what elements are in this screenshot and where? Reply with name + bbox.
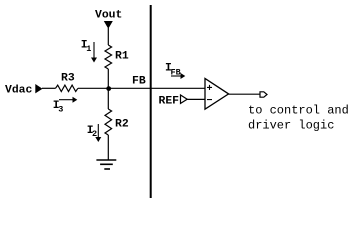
svg-text:REF: REF: [159, 96, 180, 108]
svg-text:3: 3: [58, 105, 63, 115]
svg-text:FB: FB: [132, 76, 146, 88]
svg-text:Vdac: Vdac: [5, 85, 33, 97]
svg-text:R3: R3: [61, 73, 75, 85]
svg-text:R1: R1: [115, 51, 129, 63]
svg-text:1: 1: [86, 44, 91, 54]
svg-text:FB: FB: [171, 67, 181, 77]
svg-text:+: +: [207, 84, 213, 95]
svg-text:driver logic: driver logic: [248, 119, 334, 133]
svg-text:Vout: Vout: [95, 9, 122, 21]
svg-text:to control and: to control and: [248, 104, 349, 118]
svg-text:R2: R2: [115, 119, 129, 131]
svg-text:2: 2: [92, 129, 97, 139]
svg-text:−: −: [207, 96, 213, 107]
